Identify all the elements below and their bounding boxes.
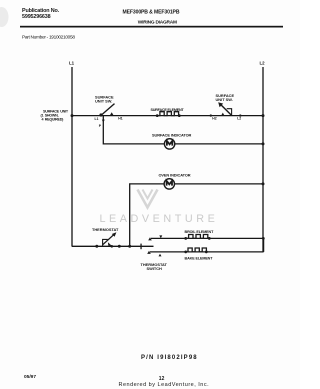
svg-text:Rendered by LeadVenture, Inc.: Rendered by LeadVenture, Inc. [119, 382, 210, 388]
watermark LeadVenture logo chevron [138, 190, 158, 208]
indicator lamp: oven indicator [159, 173, 191, 189]
junction dot main/L2 [262, 114, 265, 117]
svg-text:UNIT SW.: UNIT SW. [95, 98, 112, 103]
wire: bake branch line [150, 251, 264, 253]
wire: main top line L1 to L2 [72, 115, 263, 117]
wire: broil branch line [151, 237, 264, 239]
svg-text:L1: L1 [95, 117, 99, 121]
svg-text:OVEN INDICATOR: OVEN INDICATOR [159, 173, 191, 178]
svg-text:Publication No.: Publication No. [22, 8, 60, 14]
svg-text:THERMOSTAT: THERMOSTAT [92, 227, 119, 232]
svg-text:WIRING DIAGRAM: WIRING DIAGRAM [138, 20, 177, 26]
junction dot oven riser / thermostat line [128, 245, 131, 248]
header horizontal rule [20, 26, 283, 28]
resistor: bake element [184, 248, 213, 261]
thermostat switch [92, 227, 121, 248]
svg-text:L2: L2 [260, 61, 266, 66]
svg-text:LEADVENTURE: LEADVENTURE [100, 213, 219, 225]
svg-text:SWITCH: SWITCH [147, 266, 163, 271]
svg-text:L2: L2 [237, 116, 241, 120]
resistor: broil element [184, 230, 214, 240]
svg-text:P: P [99, 124, 102, 128]
svg-text:L1: L1 [69, 61, 75, 66]
svg-text:SURFACE INDICATOR: SURFACE INDICATOR [152, 133, 192, 138]
svg-text:H1: H1 [118, 116, 122, 120]
surface unit load label: SURFACE UNIT (1 SHOWN, 4 REQUIRED) [41, 109, 69, 121]
svg-text:5995296638: 5995296638 [22, 14, 51, 20]
svg-text:H2: H2 [212, 116, 216, 120]
svg-text:05/97: 05/97 [24, 374, 36, 380]
terminal tick on thermostat line [140, 244, 141, 250]
svg-text:Part Number - 19100210058: Part Number - 19100210058 [22, 34, 75, 40]
junction dot broil/L2 [262, 237, 265, 240]
node L1 supply line (vertical) [71, 67, 73, 247]
junction dot at L1/main line [71, 114, 74, 117]
scan smudge top-left corner [0, 7, 9, 27]
svg-text:BAKE ELEMENT: BAKE ELEMENT [185, 257, 214, 261]
svg-text:P/N I9I802IP98: P/N I9I802IP98 [141, 355, 198, 361]
junction dot oven-ind/L2 [262, 182, 265, 185]
indicator lamp: surface indicator [152, 133, 192, 149]
switch S1 surface unit sw. (left) [95, 94, 123, 128]
junction dot surf-ind/L2 [262, 142, 265, 145]
wire: thermostat line [72, 245, 154, 247]
wire: right vertical joining broil/bake to L2 [263, 238, 265, 252]
switch S2 surface unit sw. (right) [210, 93, 242, 121]
svg-text:4 REQUIRED): 4 REQUIRED) [42, 117, 65, 121]
thermostat switch pole contacts to broil/bake [141, 235, 168, 271]
svg-text:BROIL ELEMENT: BROIL ELEMENT [185, 230, 215, 234]
node L2 supply line (vertical) [262, 67, 264, 252]
wire: oven indicator riser and line [130, 184, 263, 246]
svg-text:UNIT SW.: UNIT SW. [216, 97, 233, 102]
resistor: surface element [151, 108, 185, 117]
svg-text:MEF300PB & MEF301PB: MEF300PB & MEF301PB [123, 9, 180, 15]
wire: drop from switch pivot to surface indicator line [103, 116, 263, 144]
